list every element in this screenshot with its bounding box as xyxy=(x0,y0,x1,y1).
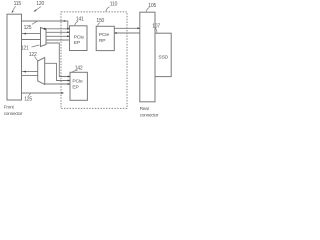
arrowhead bottom lane into box 110 xyxy=(62,92,65,94)
svg-text:105: 105 xyxy=(148,3,156,9)
label 125 top xyxy=(24,25,32,31)
wire bottom lane 125 into box 110 xyxy=(22,92,62,94)
wire mux121 top output to EP141 with junction xyxy=(44,28,70,30)
leader for label 150 xyxy=(98,23,100,26)
caption rear connector xyxy=(140,106,159,117)
leader for label 115 xyxy=(12,6,16,13)
PCIe EP U142 box xyxy=(70,72,87,100)
label 122 xyxy=(29,52,37,58)
leader for label 121 xyxy=(32,45,40,47)
leader for label 107 xyxy=(155,28,157,33)
svg-text:125: 125 xyxy=(24,96,32,102)
wire mux122 out up-route to EP142 xyxy=(45,63,70,80)
wire rear connector to RP150 (rx) xyxy=(115,32,140,34)
mux 121 xyxy=(41,28,47,47)
caption front connector xyxy=(4,105,23,117)
arrowhead into EP142 from mux122 straight xyxy=(68,83,71,85)
svg-text:107: 107 xyxy=(152,24,160,30)
leader for label 125 top xyxy=(32,21,37,24)
svg-text:PCIe: PCIe xyxy=(72,78,83,84)
svg-text:141: 141 xyxy=(76,16,84,22)
leader for label 110 xyxy=(106,7,110,12)
leader for label 125 bottom xyxy=(29,93,31,95)
wire mux121 out4 down to EP142 xyxy=(46,43,70,77)
leader for label 142 xyxy=(72,70,78,72)
wire lane connector to mux122 in2 xyxy=(22,75,38,77)
label 105 xyxy=(148,3,156,9)
svg-text:125: 125 xyxy=(24,25,32,31)
arrowhead into EP142 from mux121 route xyxy=(68,76,71,78)
rear connector 105 box xyxy=(140,12,155,102)
arrowhead into rear connector xyxy=(138,27,141,29)
svg-text:Rear: Rear xyxy=(140,106,150,111)
label 141 xyxy=(76,16,84,22)
leader for label 122 xyxy=(35,57,38,61)
svg-text:110: 110 xyxy=(110,2,118,8)
svg-text:150: 150 xyxy=(96,18,104,24)
label 150 xyxy=(96,18,104,24)
label 121 xyxy=(21,45,29,51)
svg-text:PCIe: PCIe xyxy=(99,32,110,38)
PCIe RP U150 box xyxy=(96,26,114,50)
leader for label 141 xyxy=(75,21,78,25)
label 115 xyxy=(14,1,22,7)
wire mux122 out straight to EP142 xyxy=(45,83,70,85)
svg-text:SSD: SSD xyxy=(158,55,168,61)
arrowhead toward connector on mux121 lane xyxy=(23,33,26,35)
arrowhead into EP141 lane1 xyxy=(67,28,70,30)
wire lane connector to mux121 in1 xyxy=(22,33,41,35)
mux 122 xyxy=(38,58,45,85)
wire mux121 out3 to EP141 xyxy=(46,39,70,41)
svg-text:connector: connector xyxy=(140,112,159,117)
wire mux121 out1 to EP141 xyxy=(46,31,70,33)
svg-text:121: 121 xyxy=(21,45,29,51)
SSD 107 box xyxy=(155,33,171,76)
wire lane1 connector joins EP141 top input xyxy=(22,21,68,29)
svg-text:PCIe: PCIe xyxy=(74,34,85,40)
wire mux121 out2 to EP141 xyxy=(46,35,70,37)
dashed box 110 (host/controller boundary) xyxy=(61,12,127,109)
svg-text:142: 142 xyxy=(75,66,83,72)
label 142 xyxy=(75,66,83,72)
wire RP150 to rear connector (tx) xyxy=(114,27,139,29)
arrowhead mid lane1 xyxy=(64,20,66,22)
svg-text:115: 115 xyxy=(14,1,22,7)
front connector 115 box xyxy=(7,14,22,100)
text PCIe EP U141 xyxy=(74,34,85,46)
wire lane connector to mux122 in1 xyxy=(22,71,38,73)
arrowhead into EP142 from mux122 route xyxy=(68,80,71,82)
PCIe EP U141 box xyxy=(70,26,88,51)
text PCIe EP U142 xyxy=(72,78,83,90)
label 125 bottom xyxy=(24,96,32,102)
text PCIe RP U150 xyxy=(99,32,110,44)
label 107 xyxy=(152,24,160,30)
leader for label 120 xyxy=(34,7,41,12)
leader for label 105 xyxy=(146,7,149,12)
arrowhead into EP141 from mux121 out1 xyxy=(67,31,70,33)
svg-text:120: 120 xyxy=(36,1,44,7)
arrowhead into RP150 xyxy=(114,32,117,34)
label 110 xyxy=(110,2,118,8)
text SSD 107 xyxy=(158,55,168,61)
arrowhead toward connector on mux122 lane xyxy=(23,71,26,73)
svg-text:connector: connector xyxy=(4,111,23,116)
wire lane connector to mux121 in2 xyxy=(22,39,41,41)
svg-text:EP: EP xyxy=(74,40,80,46)
arrowhead into EP141 from mux121 out2 xyxy=(67,35,70,37)
svg-text:Front: Front xyxy=(4,105,15,110)
svg-text:EP: EP xyxy=(72,84,78,90)
label 120 xyxy=(36,1,44,7)
svg-text:122: 122 xyxy=(29,52,37,58)
svg-text:RP: RP xyxy=(99,38,105,44)
